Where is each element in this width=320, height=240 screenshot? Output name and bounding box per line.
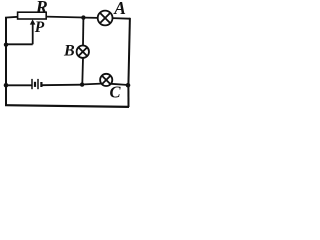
- wire left vertical: [5, 18, 7, 106]
- wire lamp C to right node: [111, 84, 126, 85]
- wire lamp B down to node: [81, 58, 84, 85]
- lamp C: [100, 74, 112, 86]
- slider arrow head P: [30, 19, 36, 24]
- battery cell plates: [32, 79, 41, 89]
- wire node to lamp C: [84, 83, 101, 86]
- wire bottom: [5, 105, 129, 107]
- svg-text:B: B: [63, 42, 75, 59]
- lamp A: [98, 11, 113, 26]
- lamp B: [77, 46, 89, 58]
- wire to battery: [6, 84, 32, 86]
- wire node to lamp A: [85, 17, 98, 19]
- wire right vertical upper: [128, 18, 130, 85]
- wire slider branch horizontal: [6, 43, 33, 45]
- wire node A down to lamp B: [82, 18, 84, 46]
- node junction dot top: [81, 15, 85, 19]
- node dot battery branch: [4, 83, 9, 88]
- node dot slider branch: [4, 43, 8, 47]
- svg-text:A: A: [113, 0, 126, 18]
- svg-text:R: R: [35, 0, 48, 17]
- wire lamp A to top right corner: [113, 17, 131, 20]
- svg-text:P: P: [35, 19, 45, 36]
- wire right vertical lower: [127, 85, 129, 107]
- node dot right: [126, 83, 131, 88]
- wire slider stem: [32, 23, 34, 45]
- wire top left to rheostat: [5, 16, 18, 19]
- resistor R (rheostat box): [18, 12, 47, 19]
- wire battery to node B: [42, 84, 82, 87]
- wire rheostat to node A: [46, 16, 84, 19]
- node junction dot bottom: [80, 82, 84, 86]
